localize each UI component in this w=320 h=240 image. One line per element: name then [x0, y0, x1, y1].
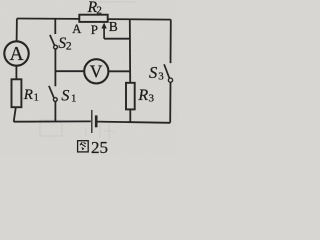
svg-text:S: S: [149, 63, 157, 82]
wire voltmeter left: [55, 70, 84, 72]
svg-text:R: R: [137, 87, 148, 104]
wire top right segment: [107, 18, 171, 21]
rheostat R2 box: [79, 15, 107, 22]
wire bottom left segment: [14, 120, 91, 122]
switch S3 lever: [164, 64, 169, 78]
wire R1 to bottom-left corner: [14, 107, 16, 122]
svg-text:A: A: [10, 44, 24, 65]
slider P arrowhead: [101, 23, 106, 29]
bleed-through ghost marks: [40, 2, 136, 140]
svg-text:1: 1: [34, 92, 39, 103]
battery long plate: [91, 110, 93, 133]
svg-text:S: S: [61, 88, 69, 105]
svg-text:25: 25: [91, 138, 108, 156]
voltmeter V circle: [84, 59, 108, 83]
wire node B branch down to R3: [129, 19, 131, 83]
wire voltmeter right: [108, 70, 129, 72]
wire R3 to bottom: [129, 109, 131, 122]
svg-text:B: B: [109, 19, 118, 34]
svg-text:1: 1: [71, 93, 77, 105]
switch S1 lever: [49, 86, 54, 98]
wire left upper: [16, 19, 18, 42]
wire right upper to S3 stub: [170, 20, 172, 64]
switch S3 pivot circle: [168, 78, 172, 82]
slider P arrow shaft: [103, 27, 105, 39]
wire ammeter to R1: [15, 66, 17, 80]
resistor R3 box: [126, 83, 135, 110]
svg-text:2: 2: [66, 41, 72, 53]
paper background: [0, 0, 178, 156]
battery short plate: [95, 115, 98, 127]
wire S1 to bottom: [54, 102, 56, 122]
ammeter A circle: [4, 41, 28, 65]
svg-text:P: P: [91, 22, 98, 37]
wire top left segment: [17, 18, 79, 20]
wire slider P to node B branch: [104, 38, 130, 40]
svg-text:R: R: [23, 87, 33, 103]
svg-text:3: 3: [149, 93, 155, 105]
wire top to S2 stub: [54, 19, 56, 34]
switch S2 lever: [50, 35, 55, 45]
resistor R1 box: [12, 79, 22, 107]
wire S2 to S1 stub: [54, 49, 56, 86]
switch S1 pivot circle: [53, 98, 57, 102]
svg-text:3: 3: [158, 70, 164, 82]
switch S2 pivot circle: [54, 45, 58, 49]
wire bottom right segment: [98, 122, 171, 123]
caption character tu (figure) drawn as strokes: [78, 141, 89, 152]
wire S3 to bottom-right corner: [169, 82, 171, 122]
svg-text:V: V: [90, 61, 103, 81]
svg-text:2: 2: [96, 5, 102, 17]
svg-text:A: A: [72, 22, 81, 36]
